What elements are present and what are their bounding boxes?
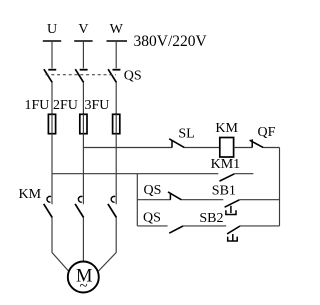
wire W contact to bend <box>115 218 117 253</box>
switch QS pole W fixed contact tick <box>113 69 121 71</box>
motor M circle <box>68 262 99 293</box>
svg-text:KM: KM <box>215 121 238 136</box>
wire QS row3 to SB1 <box>181 199 223 201</box>
button SB2 lever <box>227 226 240 234</box>
switch QS pole W lever <box>108 69 116 82</box>
button SB1 stem <box>230 206 232 213</box>
wire W switch to fuse <box>115 82 117 114</box>
svg-text:SB2: SB2 <box>199 211 223 226</box>
terminal bar W <box>107 40 128 42</box>
wire V fuse to KM contact <box>82 134 84 205</box>
control row2 wire from U to KM1 <box>52 173 218 175</box>
wire SB2 to rail <box>240 225 280 227</box>
fuse 1FU body <box>48 114 55 133</box>
wire V terminal to switch <box>82 41 84 68</box>
svg-text:W: W <box>110 22 124 37</box>
svg-text:KM1: KM1 <box>211 157 241 172</box>
contact SL fixed tick <box>171 140 173 147</box>
branch wire down from row2 <box>136 174 138 226</box>
KM main contact V arc <box>78 196 82 202</box>
wire KM1 right stub <box>234 173 253 175</box>
KM main contact W lever <box>108 204 117 218</box>
fuse 2FU body <box>80 114 87 133</box>
svg-text:QS: QS <box>144 183 162 198</box>
contact QF lever <box>250 140 264 147</box>
wire SB1 to rail <box>239 199 279 201</box>
button SB1 lever <box>225 200 240 207</box>
terminal bar U <box>43 40 61 42</box>
svg-text:~: ~ <box>79 279 87 295</box>
wire U fuse to KM contact <box>51 134 53 205</box>
fuse 3FU body <box>113 114 120 133</box>
svg-text:QS: QS <box>143 211 161 226</box>
switch QS pole V fixed contact tick <box>80 69 88 71</box>
wire through fuse 3FU <box>115 114 117 133</box>
switch QS pole U fixed contact tick <box>48 69 56 71</box>
contact SL lever <box>169 139 184 148</box>
wire W terminal to switch <box>115 41 117 68</box>
svg-text:2FU: 2FU <box>53 98 78 113</box>
svg-text:1FU: 1FU <box>25 98 50 113</box>
control row1 wire from V to SL <box>83 147 172 149</box>
contact QS row3 lever <box>168 192 181 200</box>
control row4 wire to QS aux <box>137 225 167 227</box>
switch QS pole V lever <box>75 69 83 82</box>
right rail wire <box>279 148 281 226</box>
contact QS row4 lever <box>169 226 183 233</box>
KM main contact U lever <box>44 204 53 218</box>
wire U terminal to switch <box>51 41 53 68</box>
motor lead slant W <box>99 253 117 272</box>
wire through fuse 2FU <box>82 114 84 133</box>
wire V switch to fuse <box>82 82 84 114</box>
button SB2 cap <box>228 237 238 241</box>
KM main contact V lever <box>75 204 84 218</box>
wire through fuse 1FU <box>51 114 53 133</box>
control row3 wire to QS aux <box>137 199 170 201</box>
contact QF fixed tick <box>251 139 253 147</box>
svg-text:380V/220V: 380V/220V <box>134 33 208 50</box>
contact KM1 lever <box>220 174 235 181</box>
terminal bar V <box>74 40 92 42</box>
coil KM rectangle <box>220 138 234 158</box>
wire QF to right rail <box>263 147 279 149</box>
button SB1 cap <box>226 210 236 214</box>
svg-text:SL: SL <box>178 126 194 141</box>
svg-text:KM: KM <box>19 187 42 202</box>
QS mechanical link dashed line <box>46 74 117 76</box>
svg-text:SB1: SB1 <box>212 184 236 199</box>
wire SL to KM coil <box>184 147 219 149</box>
wire KM coil to QF <box>234 147 253 149</box>
svg-text:U: U <box>47 22 57 37</box>
wire V contact to motor <box>82 218 84 263</box>
motor lead slant U <box>52 253 69 272</box>
switch QS pole U lever <box>44 69 52 82</box>
KM main contact U arc <box>47 196 51 202</box>
wire U switch to fuse <box>51 82 53 114</box>
svg-text:QF: QF <box>258 125 276 140</box>
wire U contact to bend <box>51 218 53 253</box>
contact QS row3 fixed tick <box>169 193 171 200</box>
svg-text:3FU: 3FU <box>85 98 110 113</box>
button SB2 stem <box>232 234 234 241</box>
wire W fuse to KM contact <box>115 134 117 205</box>
wire QS row4 to SB2 <box>183 225 226 227</box>
svg-text:V: V <box>78 22 88 37</box>
KM main contact W arc <box>111 196 115 202</box>
svg-text:QS: QS <box>124 68 142 83</box>
